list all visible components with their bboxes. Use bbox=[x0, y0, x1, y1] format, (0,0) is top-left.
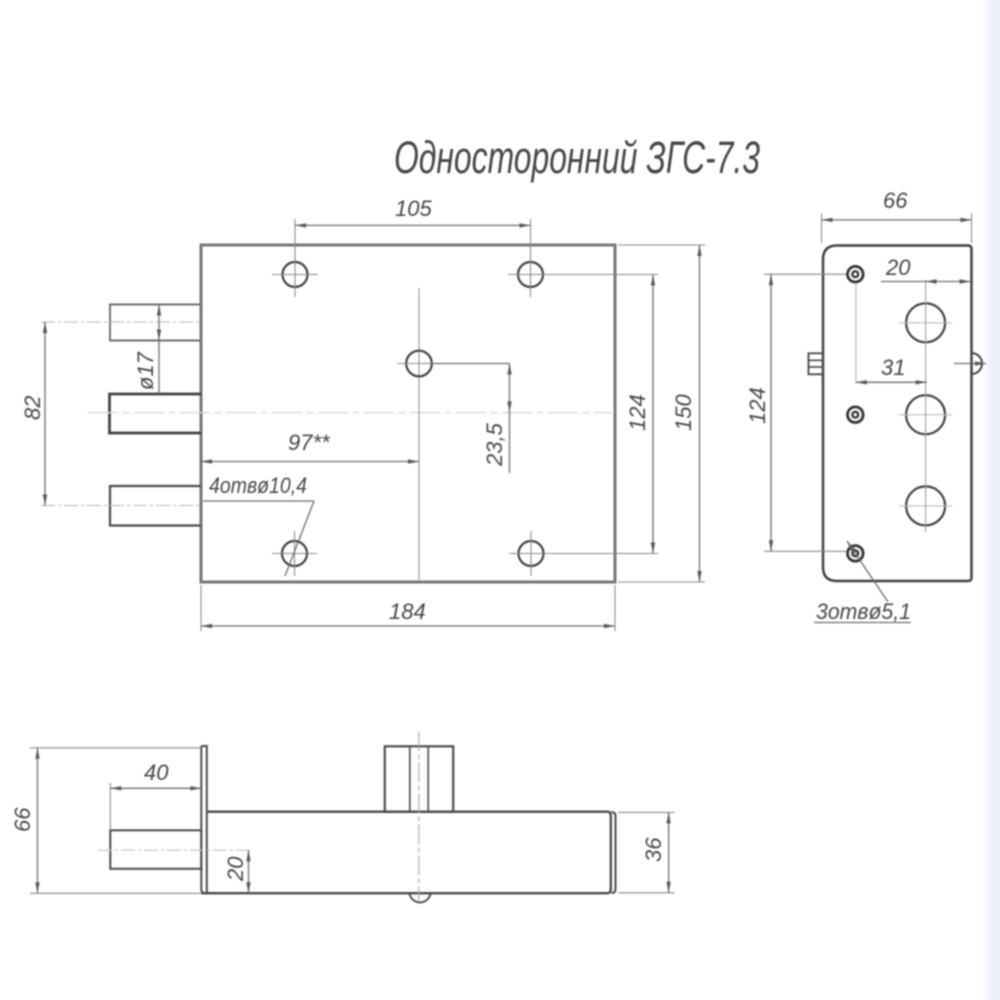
big hole 3 bbox=[899, 486, 952, 525]
svg-text:97**: 97** bbox=[288, 430, 331, 455]
svg-text:124: 124 bbox=[745, 387, 770, 424]
hole center bbox=[397, 351, 441, 377]
svg-text:40: 40 bbox=[144, 760, 169, 785]
centerline stud bottom bbox=[41, 505, 201, 507]
stud bottom view bbox=[98, 830, 253, 869]
hole BL bbox=[272, 531, 317, 576]
big hole 1 bbox=[899, 303, 952, 342]
centerline stud top bbox=[41, 321, 201, 323]
svg-text:23,5: 23,5 bbox=[482, 422, 507, 467]
bolt head 3 bbox=[848, 546, 864, 562]
dim d17 bbox=[133, 305, 159, 395]
svg-text:ø17: ø17 bbox=[133, 351, 158, 390]
svg-text:66: 66 bbox=[883, 188, 908, 213]
dim 124 right bbox=[543, 275, 658, 554]
svg-text:3отвø5,1: 3отвø5,1 bbox=[816, 599, 911, 624]
svg-text:31: 31 bbox=[881, 355, 905, 380]
svg-text:66: 66 bbox=[10, 807, 35, 832]
svg-text:82: 82 bbox=[20, 396, 45, 420]
svg-text:36: 36 bbox=[641, 837, 666, 862]
bolt column extension bbox=[855, 284, 857, 382]
latch arrow right bbox=[954, 353, 986, 374]
svg-text:Односторонний ЗГС-7.3: Односторонний ЗГС-7.3 bbox=[394, 132, 760, 183]
dim 124 side bbox=[745, 274, 846, 551]
svg-text:105: 105 bbox=[395, 196, 432, 221]
svg-text:184: 184 bbox=[389, 599, 426, 624]
dim 82 bbox=[20, 322, 45, 506]
bolt head 2 bbox=[848, 407, 864, 423]
centerline horizontal main bbox=[88, 412, 612, 414]
bolt head 1 bbox=[848, 266, 864, 282]
plate body bbox=[201, 245, 615, 582]
svg-text:150: 150 bbox=[671, 394, 696, 431]
face plate bbox=[201, 746, 207, 893]
svg-text:20: 20 bbox=[223, 856, 248, 882]
svg-text:20: 20 bbox=[885, 255, 911, 280]
dim 105 bbox=[295, 196, 530, 225]
label 3 holes d5.1 bbox=[814, 541, 911, 624]
body bottom view bbox=[201, 812, 615, 894]
big hole 2 bbox=[899, 395, 952, 434]
svg-text:4отвø10,4: 4отвø10,4 bbox=[209, 473, 307, 498]
stud bottom bbox=[110, 486, 201, 526]
dim 184 bbox=[201, 585, 615, 631]
dim 40 bbox=[110, 760, 201, 830]
side body bbox=[823, 246, 972, 582]
svg-text:124: 124 bbox=[625, 394, 650, 431]
dim 66 top bbox=[822, 188, 972, 243]
stud top bbox=[110, 305, 201, 341]
dim 150 bbox=[618, 245, 705, 582]
hole TR bbox=[508, 219, 553, 297]
dim 20 bottom view bbox=[223, 850, 249, 893]
blue band right edge bbox=[982, 0, 1000, 1000]
bottom arc notch bbox=[410, 893, 431, 902]
title bbox=[394, 132, 760, 183]
centerline vertical main bbox=[418, 288, 420, 581]
dim 36 bbox=[618, 812, 675, 892]
dim 23.5 bbox=[432, 364, 510, 474]
hole column centerline bbox=[925, 280, 927, 532]
hole TL bbox=[272, 219, 318, 297]
dim 97 bbox=[201, 430, 419, 462]
dim 66 bottom view bbox=[10, 748, 201, 894]
dim 31 side bbox=[856, 355, 927, 382]
hole BR bbox=[509, 531, 554, 576]
stud middle bbox=[110, 394, 202, 433]
dim 20 side bbox=[881, 255, 971, 282]
latch tab left bbox=[809, 353, 824, 374]
label 4 holes d10.4 bbox=[203, 473, 314, 576]
cylinder stud bottom view bbox=[385, 731, 453, 901]
